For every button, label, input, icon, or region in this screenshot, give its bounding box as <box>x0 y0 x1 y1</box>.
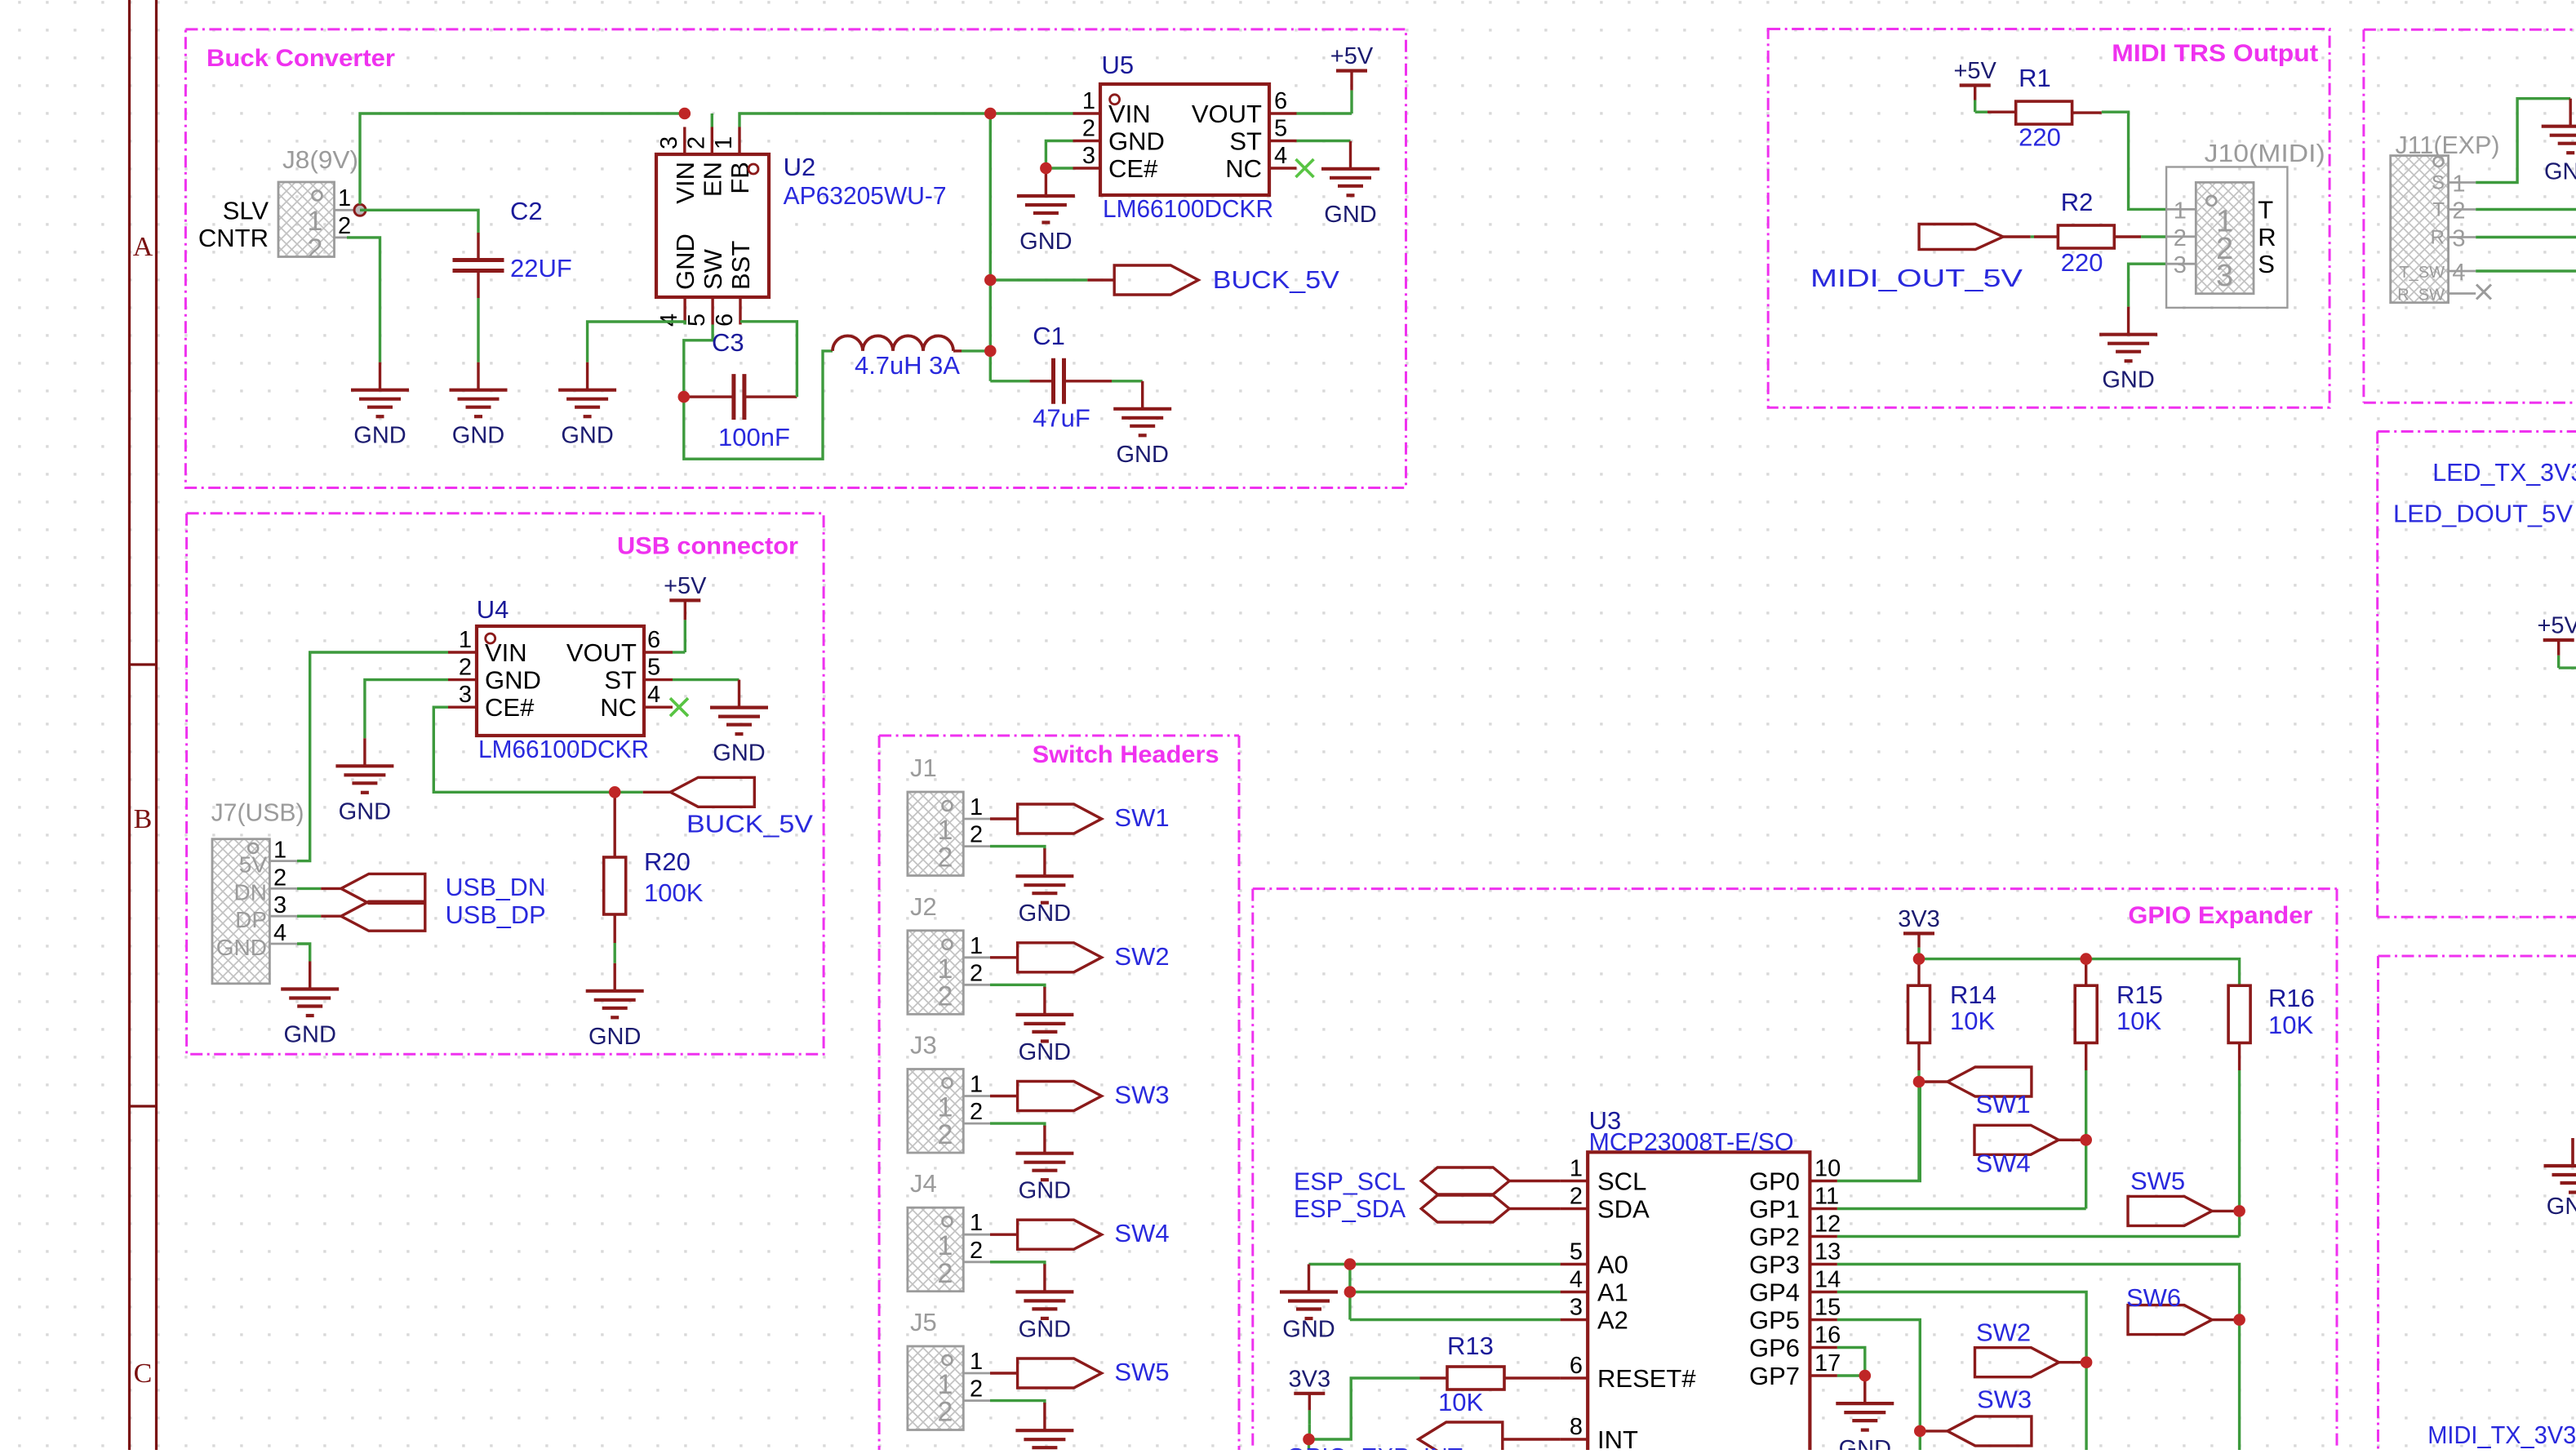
svg-text:5: 5 <box>647 655 660 681</box>
svg-text:Switch Headers: Switch Headers <box>1033 741 1219 768</box>
svg-text:SW4: SW4 <box>1114 1219 1169 1247</box>
svg-text:ST: ST <box>1229 127 1262 156</box>
svg-text:R1: R1 <box>2019 64 2051 92</box>
svg-text:4.7uH 3A: 4.7uH 3A <box>855 351 960 380</box>
svg-text:SDA: SDA <box>1597 1195 1650 1224</box>
svg-text:LM66100DCKR: LM66100DCKR <box>1103 194 1273 223</box>
svg-text:1: 1 <box>2174 198 2187 224</box>
svg-text:DN: DN <box>234 879 267 905</box>
svg-text:3: 3 <box>2216 259 2233 293</box>
svg-text:10K: 10K <box>1950 1007 1995 1035</box>
svg-text:SW3: SW3 <box>1114 1081 1169 1109</box>
svg-text:GND: GND <box>1019 1178 1071 1204</box>
svg-text:+5V: +5V <box>664 573 707 599</box>
svg-text:10K: 10K <box>2116 1007 2161 1035</box>
svg-text:GND: GND <box>671 233 700 290</box>
svg-text:2: 2 <box>970 1376 983 1403</box>
svg-text:8: 8 <box>1570 1414 1583 1440</box>
svg-text:+5V: +5V <box>1330 43 1374 69</box>
svg-text:1: 1 <box>338 185 351 211</box>
svg-text:U2: U2 <box>784 153 816 181</box>
svg-text:GP6: GP6 <box>1749 1334 1800 1363</box>
svg-text:A0: A0 <box>1597 1251 1628 1279</box>
svg-text:LED_DOUT_5V: LED_DOUT_5V <box>2393 500 2573 528</box>
svg-text:6: 6 <box>1274 88 1287 114</box>
svg-text:GP3: GP3 <box>1749 1251 1800 1279</box>
svg-text:CNTR: CNTR <box>198 224 269 252</box>
svg-text:2: 2 <box>2174 225 2187 251</box>
svg-text:USB connector: USB connector <box>617 533 798 560</box>
svg-text:SW4: SW4 <box>1976 1149 2031 1177</box>
svg-text:2: 2 <box>938 843 953 874</box>
svg-text:4: 4 <box>647 682 660 708</box>
svg-text:GND: GND <box>452 423 504 449</box>
svg-text:1: 1 <box>970 794 983 820</box>
svg-text:B: B <box>134 804 153 834</box>
svg-text:GND: GND <box>1019 229 1072 255</box>
svg-text:GP5: GP5 <box>1749 1306 1800 1335</box>
svg-text:1: 1 <box>938 1230 953 1261</box>
svg-text:1: 1 <box>970 1072 983 1098</box>
svg-text:5: 5 <box>684 313 710 327</box>
svg-text:MIDI_OUT_5V: MIDI_OUT_5V <box>1810 264 2023 292</box>
svg-text:100nF: 100nF <box>718 423 790 451</box>
svg-text:LM66100DCKR: LM66100DCKR <box>478 735 649 763</box>
svg-text:SW2: SW2 <box>1976 1318 2031 1346</box>
svg-text:GND: GND <box>713 740 765 767</box>
svg-text:GND: GND <box>2547 1194 2576 1220</box>
svg-text:17: 17 <box>1814 1350 1841 1376</box>
svg-text:SLV: SLV <box>223 197 269 225</box>
svg-text:J1: J1 <box>910 754 937 782</box>
svg-text:BST: BST <box>726 241 755 290</box>
svg-text:11: 11 <box>1814 1184 1839 1210</box>
svg-text:4: 4 <box>2452 260 2465 286</box>
svg-text:R16: R16 <box>2268 984 2315 1012</box>
svg-text:2: 2 <box>938 1119 953 1150</box>
svg-text:R: R <box>2258 223 2276 251</box>
svg-text:2: 2 <box>970 1099 983 1125</box>
svg-text:USB_DP: USB_DP <box>446 900 546 929</box>
svg-text:A: A <box>133 232 153 262</box>
svg-text:100K: 100K <box>644 878 704 907</box>
svg-text:EN: EN <box>698 162 726 197</box>
svg-text:GND: GND <box>216 935 267 960</box>
svg-text:MIDI TRS Output: MIDI TRS Output <box>2112 40 2318 67</box>
svg-text:47uF: 47uF <box>1033 403 1090 432</box>
svg-text:22UF: 22UF <box>510 254 572 282</box>
svg-text:C: C <box>134 1358 153 1389</box>
svg-text:4: 4 <box>1274 143 1287 169</box>
svg-text:SW: SW <box>699 248 727 290</box>
svg-text:2: 2 <box>938 1397 953 1428</box>
svg-text:SW5: SW5 <box>2130 1167 2185 1195</box>
svg-text:U4: U4 <box>477 595 509 624</box>
svg-text:R15: R15 <box>2116 980 2163 1009</box>
svg-text:2: 2 <box>970 822 983 848</box>
svg-text:15: 15 <box>1814 1295 1841 1321</box>
svg-text:2: 2 <box>2452 198 2465 225</box>
svg-text:GP0: GP0 <box>1749 1167 1800 1196</box>
svg-text:220: 220 <box>2019 123 2061 152</box>
svg-text:GND: GND <box>1839 1436 1891 1450</box>
svg-text:SW2: SW2 <box>1114 942 1169 971</box>
svg-text:2: 2 <box>308 233 323 265</box>
svg-text:GND: GND <box>485 666 541 695</box>
svg-text:1: 1 <box>938 815 953 846</box>
svg-text:R2: R2 <box>2061 188 2094 216</box>
svg-text:CE#: CE# <box>485 693 535 722</box>
svg-text:3: 3 <box>459 682 472 708</box>
svg-text:SCL: SCL <box>1597 1167 1646 1196</box>
svg-text:2: 2 <box>1082 116 1095 142</box>
svg-text:2: 2 <box>970 1238 983 1264</box>
svg-text:J5: J5 <box>910 1308 937 1336</box>
svg-text:T_SW: T_SW <box>2399 264 2445 282</box>
svg-text:5: 5 <box>1274 116 1287 142</box>
svg-text:MCP23008T-E/SO: MCP23008T-E/SO <box>1589 1127 1794 1156</box>
svg-text:1: 1 <box>1082 88 1095 114</box>
svg-text:GND: GND <box>339 798 391 825</box>
svg-text:1: 1 <box>711 136 737 149</box>
svg-text:1: 1 <box>1570 1156 1583 1182</box>
svg-text:2: 2 <box>970 960 983 986</box>
svg-text:A1: A1 <box>1597 1278 1628 1307</box>
svg-text:C2: C2 <box>510 197 543 225</box>
svg-text:2: 2 <box>459 655 472 681</box>
svg-text:MIDI_TX_3V3: MIDI_TX_3V3 <box>2427 1421 2576 1449</box>
svg-text:ST: ST <box>604 666 637 695</box>
svg-text:3: 3 <box>273 892 286 918</box>
svg-text:S: S <box>2432 172 2445 194</box>
svg-text:GP7: GP7 <box>1749 1362 1800 1390</box>
svg-text:10: 10 <box>1814 1156 1841 1182</box>
svg-text:NC: NC <box>600 693 637 722</box>
svg-text:1: 1 <box>938 954 953 985</box>
svg-text:R14: R14 <box>1950 980 1996 1009</box>
svg-text:SW1: SW1 <box>1114 803 1169 832</box>
svg-text:GP4: GP4 <box>1749 1278 1800 1307</box>
svg-text:220: 220 <box>2061 248 2103 277</box>
svg-text:GND: GND <box>561 423 613 449</box>
svg-text:10K: 10K <box>2268 1011 2313 1039</box>
svg-text:LED_TX_3V3: LED_TX_3V3 <box>2432 458 2576 487</box>
svg-text:5V: 5V <box>239 852 268 878</box>
svg-text:J8(9V): J8(9V) <box>282 145 358 174</box>
svg-text:NC: NC <box>1225 154 1262 183</box>
svg-text:T: T <box>2258 195 2273 224</box>
svg-text:GND: GND <box>353 423 406 449</box>
svg-text:GP2: GP2 <box>1749 1223 1800 1252</box>
svg-text:2: 2 <box>938 980 953 1012</box>
svg-text:R13: R13 <box>1447 1332 1494 1360</box>
svg-text:T: T <box>2432 199 2445 221</box>
svg-text:SW3: SW3 <box>1977 1385 2032 1414</box>
svg-text:1: 1 <box>273 838 286 864</box>
svg-text:6: 6 <box>647 627 660 653</box>
svg-text:S: S <box>2258 250 2275 278</box>
svg-text:GP1: GP1 <box>1749 1195 1800 1224</box>
svg-text:6: 6 <box>1570 1353 1583 1379</box>
svg-text:1: 1 <box>970 1210 983 1236</box>
svg-text:J7(USB): J7(USB) <box>211 798 304 826</box>
svg-text:INT: INT <box>1597 1425 1638 1450</box>
svg-text:6: 6 <box>712 313 738 327</box>
svg-text:16: 16 <box>1814 1323 1841 1349</box>
svg-text:3V3: 3V3 <box>1898 906 1940 932</box>
svg-text:+5V: +5V <box>1953 58 1996 84</box>
svg-text:4: 4 <box>1570 1267 1583 1293</box>
svg-text:1: 1 <box>938 1092 953 1123</box>
svg-text:GND: GND <box>1116 442 1168 468</box>
svg-text:1: 1 <box>970 933 983 959</box>
svg-text:DP: DP <box>235 907 267 932</box>
svg-text:3: 3 <box>656 136 682 149</box>
svg-text:ESP_SCL: ESP_SCL <box>1294 1167 1406 1196</box>
svg-text:GND: GND <box>2102 367 2154 394</box>
svg-text:J4: J4 <box>910 1169 937 1198</box>
svg-text:CE#: CE# <box>1108 154 1158 183</box>
svg-text:SW1: SW1 <box>1976 1090 2031 1118</box>
svg-text:SW6: SW6 <box>2126 1283 2181 1312</box>
svg-text:GND: GND <box>1108 127 1165 156</box>
svg-text:GND: GND <box>2544 159 2576 185</box>
svg-text:A2: A2 <box>1597 1306 1628 1335</box>
svg-text:GPIO Expander: GPIO Expander <box>2128 902 2312 929</box>
svg-text:GND: GND <box>1019 900 1071 927</box>
svg-text:2: 2 <box>273 865 286 891</box>
svg-text:14: 14 <box>1814 1267 1841 1293</box>
svg-text:VOUT: VOUT <box>1192 100 1262 128</box>
svg-text:USB_DN: USB_DN <box>446 873 546 901</box>
svg-text:R_SW: R_SW <box>2397 287 2445 305</box>
svg-text:J10(MIDI): J10(MIDI) <box>2205 139 2325 167</box>
svg-text:2: 2 <box>1570 1184 1583 1210</box>
svg-text:3: 3 <box>2452 226 2465 252</box>
svg-text:1: 1 <box>459 627 472 653</box>
svg-text:VOUT: VOUT <box>566 638 637 667</box>
svg-text:3V3: 3V3 <box>1288 1366 1330 1392</box>
svg-text:RESET#: RESET# <box>1597 1364 1696 1393</box>
svg-text:U5: U5 <box>1102 51 1135 79</box>
svg-text:GND: GND <box>283 1022 335 1048</box>
svg-text:GND: GND <box>1019 1316 1071 1342</box>
svg-text:BUCK_5V: BUCK_5V <box>686 810 813 838</box>
svg-text:4: 4 <box>273 920 286 946</box>
svg-text:GND: GND <box>1019 1039 1071 1065</box>
svg-text:GND: GND <box>1324 202 1376 228</box>
svg-text:J2: J2 <box>910 892 937 921</box>
svg-text:R20: R20 <box>644 847 691 876</box>
svg-text:1: 1 <box>938 1369 953 1400</box>
svg-text:4: 4 <box>656 313 682 327</box>
svg-text:5: 5 <box>1570 1239 1583 1265</box>
svg-text:GND: GND <box>588 1024 641 1050</box>
svg-text:SW5: SW5 <box>1114 1358 1169 1386</box>
svg-text:C3: C3 <box>712 328 744 357</box>
svg-text:BUCK_5V: BUCK_5V <box>1213 265 1339 294</box>
svg-text:3: 3 <box>2174 252 2187 278</box>
svg-text:3: 3 <box>1570 1295 1583 1321</box>
svg-text:VIN: VIN <box>671 162 700 204</box>
svg-text:2: 2 <box>338 213 351 239</box>
svg-text:12: 12 <box>1814 1212 1841 1238</box>
svg-text:C1: C1 <box>1033 322 1065 350</box>
svg-text:ESP_SDA: ESP_SDA <box>1294 1194 1406 1223</box>
svg-text:2: 2 <box>938 1258 953 1289</box>
svg-text:1: 1 <box>2452 171 2465 198</box>
svg-text:3: 3 <box>1082 143 1095 169</box>
svg-text:R: R <box>2431 227 2445 249</box>
svg-text:10K: 10K <box>1438 1388 1483 1416</box>
svg-text:2: 2 <box>683 136 709 149</box>
svg-text:Buck Converter: Buck Converter <box>207 45 395 72</box>
svg-text:+5V: +5V <box>2537 613 2576 639</box>
svg-text:AP63205WU-7: AP63205WU-7 <box>784 181 947 210</box>
svg-text:1: 1 <box>970 1349 983 1375</box>
svg-text:J3: J3 <box>910 1031 937 1060</box>
svg-text:GND: GND <box>1282 1317 1335 1343</box>
svg-text:1: 1 <box>308 206 323 237</box>
svg-text:13: 13 <box>1814 1239 1841 1265</box>
